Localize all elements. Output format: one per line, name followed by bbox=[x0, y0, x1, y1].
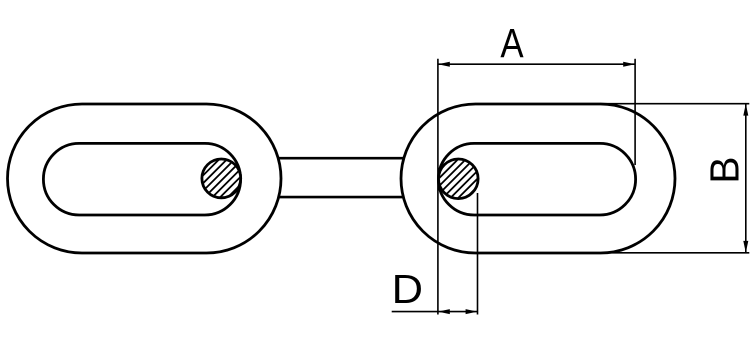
svg-text:A: A bbox=[500, 21, 524, 66]
svg-text:B: B bbox=[701, 156, 747, 183]
svg-text:D: D bbox=[392, 266, 423, 312]
